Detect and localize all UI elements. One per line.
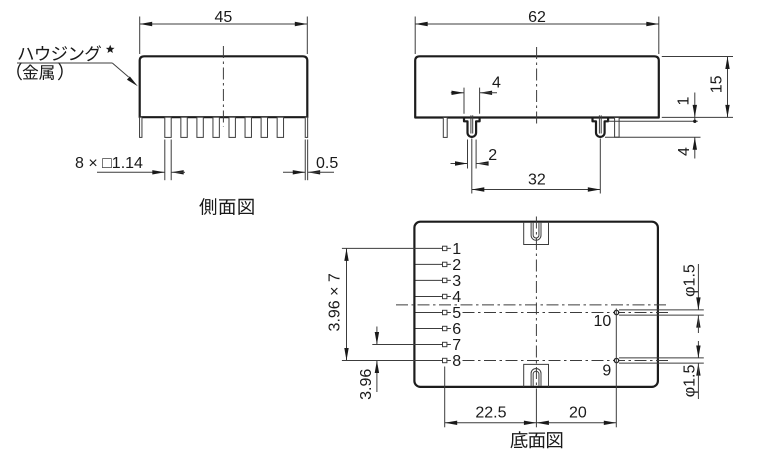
svg-text:8 × □1.14: 8 × □1.14 [75,155,143,172]
leader line to housing [17,62,112,64]
label housing asterisk star [106,45,115,53]
hole 10 [614,310,618,314]
bottom view horizontal centerline [396,304,670,306]
svg-text:32: 32 [528,172,546,189]
svg-text:45: 45 [215,9,233,26]
side view housing body outline [140,56,308,117]
extension line row8 left [342,360,416,362]
centerline through pin5 and hole10 [463,312,672,314]
front view right pin [615,118,620,138]
bottom mounting tab outline [524,364,549,387]
caption bottom view (Japanese) [510,431,562,448]
svg-text:4: 4 [676,147,693,156]
svg-text:φ1.5: φ1.5 [681,264,698,297]
front view vertical centerline [536,47,538,127]
dimension 15 line with arrows [727,57,729,118]
svg-text:7: 7 [452,337,461,354]
label housing (Japanese) [18,45,101,61]
reference line pin bottom level [605,136,701,138]
svg-text:2: 2 [488,147,497,164]
svg-text:6: 6 [452,321,461,338]
hole 9 tangent extension lines [619,357,704,359]
svg-text:1: 1 [452,241,461,258]
top tab slot outer U [531,223,541,241]
hole 9 [614,358,618,362]
dimension 4 extension lines [463,88,465,114]
bottom tab slot outer U [531,368,541,385]
extension line hole column [615,308,617,427]
reference line shoulder level [608,120,698,122]
centerline through pin8 and hole9 [463,360,672,362]
extension line pin column [444,367,446,428]
dimension 8x1.14 extension lines [164,140,166,181]
dimension 1 reference dot [693,120,696,123]
svg-text:5: 5 [452,305,461,322]
dimension 62 extension lines [414,17,416,55]
svg-text:0.5: 0.5 [316,155,338,172]
dimension 20 line with arrows [536,422,616,424]
top tab slot inner U [533,223,539,238]
svg-text:15: 15 [709,75,726,93]
top mounting tab outline [524,222,549,245]
svg-text:8: 8 [452,353,461,370]
extension line center [535,395,537,427]
dimension 4 right arrow [694,137,696,158]
dimension 32 line with arrows [472,189,601,191]
front view left pin [443,118,447,138]
reference line body top right [662,56,733,58]
svg-text:10: 10 [594,313,612,330]
front view housing body outline with standoff legs [415,56,659,137]
svg-text:62: 62 [528,9,546,26]
caption side view (Japanese) [199,198,253,215]
svg-text:3.96 × 7: 3.96 × 7 [326,273,343,331]
dimension 2 extension lines [467,140,469,169]
bottom tab slot inner U [533,371,539,386]
dimension 3.96 arrows [376,327,378,345]
dimension 45 line with arrows [140,23,308,25]
bottom view pin rows 1-8 with leader lines and numbers [416,247,451,249]
dimension 22.5 line with arrows [445,422,537,424]
dimension phi1.5 top arrow [697,264,699,310]
svg-text:9: 9 [602,362,611,379]
svg-text:20: 20 [569,404,587,421]
dimension 2 arrows [451,163,468,165]
pin inside right leg [598,115,600,133]
dimension phi1.5 bottom arrow [696,363,700,376]
dimension 62 line with arrows [415,23,659,25]
dimension 45 extension lines [139,17,141,55]
side view vertical centerline [222,46,224,127]
svg-text:3.96: 3.96 [358,369,375,400]
dimension 32 extension lines (leg centerlines) [471,139,473,194]
side view pins (left edge pin, 8 square pins, right edge pin) [140,117,142,137]
svg-text:3: 3 [452,273,461,290]
svg-text:2: 2 [452,257,461,274]
dimension 1 arrow [694,93,696,123]
extension line row7 left [372,344,415,346]
dimension 8x1.14 arrows [97,171,165,173]
reference line body bottom right [662,116,733,118]
dimension 3.96x7 line with arrows [346,248,348,360]
svg-text:φ1.5: φ1.5 [681,364,698,397]
hole 10 tangent extension lines [619,309,704,311]
svg-text:1: 1 [675,96,692,105]
svg-text:4: 4 [452,289,461,306]
svg-text:22.5: 22.5 [475,404,506,421]
extension line row1 left [342,247,416,249]
dimension phi1.5 middle arrows [696,315,700,328]
dimension 0.5 arrows [283,171,305,173]
dimension 4 arrows [451,92,464,94]
bottom view body outline [414,222,658,387]
pin inside left leg [470,115,472,133]
bottom view vertical centerline [535,217,537,396]
dimension 0.5 extension lines [304,140,306,181]
svg-text:4: 4 [492,75,501,92]
label metal (Japanese) [17,62,63,80]
